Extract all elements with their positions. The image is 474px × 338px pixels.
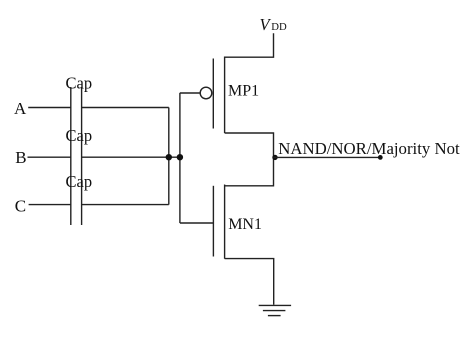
junction dot bus-B — [166, 154, 172, 160]
svg-text:MN1: MN1 — [228, 216, 262, 233]
capacitor value label Cap (input B) — [66, 126, 93, 145]
svg-text:V: V — [260, 15, 272, 34]
node B — [15, 148, 26, 167]
capacitor Cap (input C) plates — [71, 181, 82, 225]
capacitor Cap (input B) plates — [71, 133, 82, 181]
svg-text:C: C — [15, 197, 26, 216]
terminal dot output — [378, 155, 383, 160]
svg-text:NAND/NOR/Majority Not: NAND/NOR/Majority Not — [278, 139, 460, 158]
svg-text:Cap: Cap — [66, 126, 93, 145]
wire C to capacitor — [29, 204, 71, 206]
svg-text:Cap: Cap — [66, 73, 93, 92]
wire summing bus vertical — [168, 108, 170, 205]
power VDD label — [260, 15, 288, 34]
label MN1 — [228, 216, 262, 233]
node C — [15, 197, 26, 216]
junction dot floating-gate-B — [177, 154, 183, 160]
capacitor value label Cap (input A) — [66, 73, 93, 92]
wire floating gate to MN1 gate — [180, 222, 214, 224]
svg-text:MP1: MP1 — [228, 83, 259, 100]
label MP1 — [228, 83, 259, 100]
wire A from capacitor to bus — [82, 107, 169, 109]
junction dot output node — [272, 155, 277, 160]
wire floating gate to MP1 bubble — [180, 92, 200, 94]
svg-text:Cap: Cap — [66, 172, 93, 191]
svg-text:DD: DD — [271, 21, 287, 33]
wire B to capacitor — [28, 156, 71, 158]
net label NAND/NOR/Majority Not — [278, 139, 460, 158]
wire A to capacitor — [28, 107, 71, 109]
capacitor value label Cap (input C) — [66, 172, 93, 191]
svg-text:A: A — [14, 99, 27, 118]
capacitor Cap (input A) plates — [71, 87, 82, 133]
wire output — [274, 156, 381, 158]
wire B from capacitor to floating-gate bus — [82, 156, 180, 158]
svg-text:B: B — [15, 148, 26, 167]
wire C from capacitor to bus — [82, 204, 169, 206]
transistor MN1 (NMOS) — [213, 157, 273, 305]
transistor MP1 (PMOS) — [200, 33, 273, 158]
wire floating-gate vertical — [179, 93, 181, 223]
node A — [14, 99, 27, 118]
ground — [259, 305, 291, 315]
